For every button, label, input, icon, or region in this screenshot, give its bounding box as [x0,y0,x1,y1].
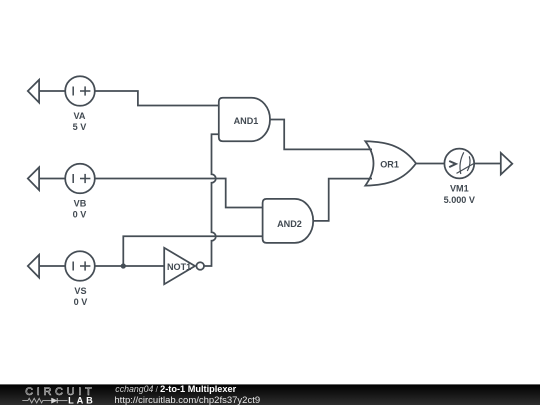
svg-text:0 V: 0 V [74,297,88,307]
junction VS tap [121,263,126,268]
svg-text:AND2: AND2 [277,219,302,229]
svg-text:0 V: 0 V [73,210,87,220]
wire flag to VB [39,178,65,180]
svg-text:VB: VB [74,199,87,209]
svg-text:AND1: AND1 [234,116,259,126]
voltage source VA [65,76,95,106]
voltmeter VM1 [444,149,474,179]
svg-text:OR1: OR1 [380,159,399,169]
svg-text:http://circuitlab.com/chp2fs37: http://circuitlab.com/chp2fs37y2ct9 [114,395,260,405]
svg-text:5.000 V: 5.000 V [444,195,475,205]
node flag OUT [501,153,513,175]
svg-text:cchang04 / 2-to-1 Multiplexer: cchang04 / 2-to-1 Multiplexer [115,384,236,394]
wire VS tap to AND2 input B [123,236,262,266]
wire flag to VS [39,265,65,267]
node flag VA [28,80,39,103]
svg-text:VM1: VM1 [450,184,469,194]
or-gate OR1 [365,141,416,185]
voltage source VB [65,164,95,194]
wire flag to VA [39,90,65,92]
CircuitLab logo resistor-diode squiggle [22,398,67,403]
and-gate AND1 [219,98,270,142]
wire AND1 output to OR1 input A [270,120,372,150]
svg-text:NOT1: NOT1 [167,262,191,272]
svg-text:5 V: 5 V [73,122,87,132]
svg-text:VS: VS [74,286,86,296]
wire OR1 output to VM1 [416,163,445,165]
node flag VS [28,255,39,278]
and-gate AND2 [263,199,314,243]
wire NOT1 output to AND1 input B (with hops) [204,134,219,266]
wire VB to AND2 input A [95,179,263,208]
wire VA to AND1 input A [95,91,219,106]
wire AND2 output to OR1 input B [313,179,372,221]
voltage source VS [65,251,95,281]
wire VS to NOT1 input [95,265,164,267]
wire VM1 to output flag [474,163,501,165]
svg-text:VA: VA [74,111,86,121]
footer bar [0,384,540,405]
svg-text:LAB: LAB [68,396,96,405]
inverter NOT1 [164,248,204,284]
node flag VB [28,167,39,190]
